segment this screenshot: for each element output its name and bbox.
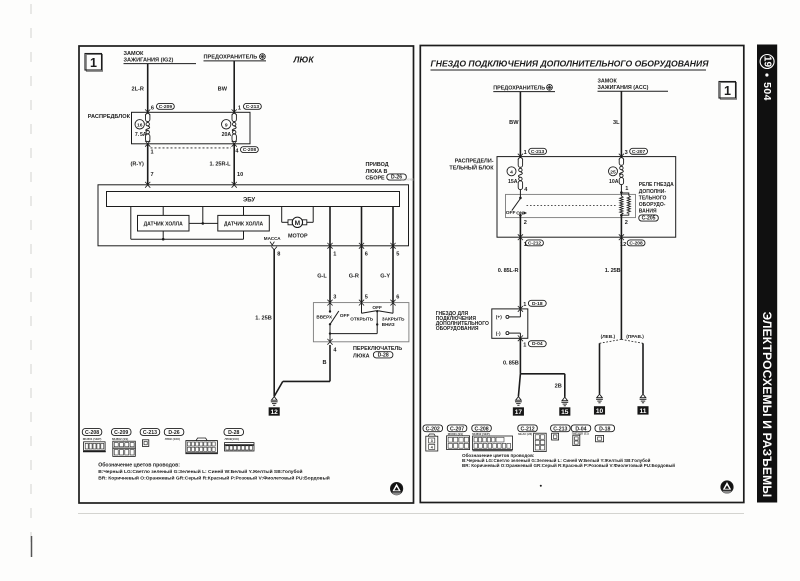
connector mark at block top right — [232, 109, 237, 112]
ground 12 — [271, 397, 277, 401]
svg-text:ЛЮК: ЛЮК — [293, 54, 315, 64]
fuse 9 20A — [232, 113, 236, 121]
sidebar page number 19-504 — [760, 55, 774, 69]
svg-text:C-213: C-213 — [246, 104, 260, 110]
svg-text:0. 85B: 0. 85B — [503, 360, 519, 366]
wire right body ground — [642, 343, 644, 394]
svg-text:D-26: D-26 — [168, 430, 179, 436]
svg-text:G-Y: G-Y — [380, 274, 390, 280]
wire 1.25B right — [620, 237, 622, 339]
ground 11 — [640, 394, 646, 398]
wire 1.25R-L to sunroof drive — [233, 144, 235, 185]
connector marks block bottom right panel — [518, 234, 523, 237]
svg-text:В:Черный LG:Светло зеленый G:З: В:Черный LG:Светло зеленый G:Зеленый L: … — [98, 468, 302, 475]
connector marks drive box bottom — [271, 247, 277, 250]
svg-text:25: 25 — [610, 169, 616, 175]
svg-text:7. 5A: 7. 5A — [135, 132, 147, 138]
diagram number 1 marker right — [719, 82, 736, 99]
svg-text:D-28: D-28 — [228, 430, 239, 436]
svg-text:B: B — [323, 360, 327, 366]
wire hall sensor link — [189, 222, 218, 224]
junction block РАСПРЕДБЛОК — [132, 112, 251, 144]
ground 15 — [562, 397, 568, 401]
svg-text:(-): (-) — [496, 331, 501, 337]
connector mark at block top left — [145, 109, 150, 112]
connector C-213 pinout — [140, 429, 160, 436]
motor M — [281, 207, 283, 223]
publisher logo right — [721, 481, 733, 493]
svg-text:ДОПОЛНИ-: ДОПОЛНИ- — [639, 189, 667, 195]
connector marks block top right panel — [518, 154, 523, 157]
svg-text:15A: 15A — [508, 179, 518, 185]
svg-text:1: 1 — [724, 84, 731, 98]
svg-text:4: 4 — [431, 445, 433, 449]
svg-text:5: 5 — [396, 252, 399, 258]
svg-text:1: 1 — [523, 343, 526, 349]
connector D-04 pinout — [571, 425, 591, 432]
svg-text:ВВЕРХ: ВВЕРХ — [316, 314, 333, 319]
svg-text:C-208: C-208 — [629, 240, 643, 246]
svg-text:10: 10 — [596, 408, 604, 415]
svg-text:МАССА: МАССА — [264, 236, 282, 241]
wire 0.85B to ground — [519, 338, 521, 374]
connector mark drive box top left — [145, 182, 150, 185]
svg-text:ВНИЗ: ВНИЗ — [382, 322, 395, 327]
svg-text:C-208: C-208 — [243, 147, 257, 153]
svg-text:1: 1 — [90, 56, 97, 70]
svg-text:BR: Коричневый O:Оранжевый GR:: BR: Коричневый O:Оранжевый GR:Серый R:Кр… — [462, 462, 675, 468]
svg-text:C-212: C-212 — [528, 240, 542, 246]
svg-text:ОБОРУДОВАНИЯ: ОБОРУДОВАНИЯ — [436, 326, 479, 332]
svg-text:D-18: D-18 — [599, 426, 610, 432]
svg-text:4: 4 — [510, 169, 513, 175]
connector mark drive box top right — [232, 182, 237, 185]
svg-text:ОТКРЫТЬ: ОТКРЫТЬ — [350, 317, 374, 322]
svg-text:ВАНИЯ: ВАНИЯ — [639, 209, 657, 215]
svg-text:D-18: D-18 — [532, 301, 543, 307]
svg-text:OFF: OFF — [506, 210, 516, 216]
svg-text:ПРЕДОХРАНИТЕЛЬ: ПРЕДОХРАНИТЕЛЬ — [204, 55, 258, 61]
svg-text:MU801 (ЧЕР): MU801 (ЧЕР) — [83, 437, 102, 441]
svg-text:C-205: C-205 — [642, 216, 656, 222]
svg-text:C-213: C-213 — [143, 430, 157, 436]
svg-text:C-207: C-207 — [632, 149, 646, 155]
wire to ground 17 — [518, 374, 520, 397]
connector D-26 pinout — [164, 429, 184, 436]
wire BW to distribution block — [519, 92, 521, 157]
wire 3L to distribution block — [620, 91, 622, 156]
svg-text:CA3A09B3: CA3A09B3 — [401, 178, 414, 182]
svg-text:BW: BW — [509, 120, 519, 126]
publisher logo left — [391, 483, 403, 495]
svg-text:7: 7 — [151, 172, 154, 178]
accessory socket box — [492, 309, 528, 338]
svg-text:(ЛЕВ.): (ЛЕВ.) — [601, 334, 616, 340]
svg-text:1. 25B: 1. 25B — [605, 268, 621, 274]
svg-text:C-209: C-209 — [159, 104, 173, 110]
svg-text:G-L: G-L — [317, 274, 327, 280]
svg-text:Обозначение цветов проводов:: Обозначение цветов проводов: — [98, 461, 180, 468]
fuse 4 15A — [518, 158, 522, 168]
fuse 16 7.5A — [146, 113, 150, 121]
svg-text:C-213: C-213 — [531, 149, 545, 155]
svg-text:ЗАМОК: ЗАМОК — [598, 78, 618, 84]
svg-text:2: 2 — [524, 220, 527, 226]
svg-text:19: 19 — [762, 56, 773, 68]
relay actuation dashed link — [527, 204, 618, 206]
wires ECU to switch inside drive box — [329, 207, 331, 246]
wire G-R — [361, 246, 363, 303]
wire G-L — [329, 246, 331, 303]
svg-text:G-R: G-R — [349, 274, 359, 280]
wire (R-Y) to sunroof drive — [147, 144, 149, 185]
page fold dashed line — [30, 4, 32, 545]
svg-text:15: 15 — [561, 409, 569, 416]
wire left body ground — [599, 343, 601, 394]
wire 2B branch — [520, 373, 564, 375]
svg-text:504: 504 — [761, 82, 773, 101]
connector C-209 pinout — [112, 429, 132, 436]
switch common bus — [329, 324, 331, 333]
svg-text:2: 2 — [625, 220, 628, 226]
wire ignition to junction block — [147, 64, 149, 113]
svg-text:M: M — [295, 220, 301, 227]
svg-text:5: 5 — [365, 294, 368, 300]
svg-text:ЛЮКА В: ЛЮКА В — [366, 169, 388, 175]
svg-text:ПРЕДОХРАНИТЕЛЬ: ПРЕДОХРАНИТЕЛЬ — [493, 85, 545, 91]
wire ground 1.25B — [273, 249, 275, 396]
switch UP contact — [329, 303, 331, 312]
connector marks switch top — [327, 300, 332, 303]
svg-text:ЛЮК (16Х): ЛЮК (16Х) — [165, 437, 180, 441]
svg-text:ДАТЧИК ХОЛЛА: ДАТЧИК ХОЛЛА — [144, 222, 184, 228]
svg-text:D-28: D-28 — [378, 352, 389, 358]
svg-text:ОБОРУДО-: ОБОРУДО- — [639, 202, 666, 208]
svg-text:C-208: C-208 — [85, 430, 99, 436]
ground 10 — [597, 394, 603, 398]
svg-text:2B: 2B — [555, 383, 562, 389]
wire ECU to hall sensor 2 — [243, 207, 245, 216]
svg-text:ГНЕЗДО (11): ГНЕЗДО (11) — [572, 431, 589, 435]
connector C-208 pinout right — [472, 425, 492, 432]
scan artefact line below panels — [78, 513, 744, 515]
svg-text:MU801 (ЗЗ): MU801 (ЗЗ) — [448, 432, 463, 436]
sunroof drive assembly box — [98, 185, 409, 246]
right panel frame — [420, 46, 744, 503]
svg-text:1: 1 — [333, 252, 336, 258]
svg-text:6: 6 — [151, 105, 154, 111]
svg-text:(ПРАВ.): (ПРАВ.) — [626, 334, 644, 340]
connector C-207 pinout — [447, 425, 467, 432]
svg-text:1: 1 — [151, 150, 154, 156]
svg-text:1: 1 — [524, 150, 527, 156]
connector D-28 pinout — [224, 429, 244, 436]
svg-text:МОТОР: МОТОР — [288, 233, 308, 239]
svg-text:17: 17 — [515, 409, 523, 416]
hall sensor box 1 — [138, 215, 190, 231]
connector mark at block bottom right — [232, 141, 237, 144]
left panel frame — [79, 46, 414, 503]
connector mark at block bottom left — [145, 141, 150, 144]
svg-text:C-209: C-209 — [114, 430, 128, 436]
svg-text:2L-R: 2L-R — [132, 86, 144, 92]
svg-text:ПРИВОД: ПРИВОД — [366, 162, 389, 168]
connector C-202 pinout — [423, 425, 443, 432]
relay to block bottom wires — [519, 215, 521, 237]
svg-text:3L: 3L — [613, 120, 620, 126]
svg-text:11: 11 — [640, 408, 647, 415]
svg-text:12: 12 — [271, 409, 279, 416]
distribution block right — [497, 157, 676, 238]
connector C-208 pinout — [82, 429, 102, 436]
connector mark switch bottom — [327, 339, 332, 342]
relay coil — [620, 185, 622, 196]
svg-text:РЕЛЕ ГНЕЗДА: РЕЛЕ ГНЕЗДА — [639, 182, 674, 188]
svg-text:ЭБУ: ЭБУ — [243, 198, 255, 204]
sunroof switch box — [313, 303, 409, 342]
connector mark socket bottom — [518, 335, 523, 338]
svg-text:6: 6 — [365, 252, 368, 258]
svg-text:ЛЮКА: ЛЮКА — [353, 353, 370, 359]
svg-text:ЛЮК(10Х): ЛЮК(10Х) — [225, 437, 239, 441]
svg-text:ТЕЛЬНОГО: ТЕЛЬНОГО — [639, 195, 667, 201]
relay switch contact — [519, 190, 521, 198]
relay box — [506, 194, 636, 217]
svg-text:ДАТЧИК ХОЛЛА: ДАТЧИК ХОЛЛА — [224, 222, 264, 228]
svg-text:C-213: C-213 — [553, 426, 567, 432]
svg-text:D-04: D-04 — [532, 341, 543, 347]
wire 0.85L-R — [519, 237, 521, 309]
wire fuse feed to junction block — [233, 61, 235, 112]
wire G-Y — [392, 246, 394, 303]
svg-text:1: 1 — [523, 302, 526, 308]
svg-text:ЗАЖИГАНИЯ (АСС): ЗАЖИГАНИЯ (АСС) — [598, 85, 649, 91]
svg-text:ЭЛЕКТРОСХЕМЫ И РАЗЪЕМЫ: ЭЛЕКТРОСХЕМЫ И РАЗЪЕМЫ — [760, 312, 774, 498]
connector C-208 dashed boundary — [151, 147, 232, 149]
svg-text:1: 1 — [625, 186, 628, 192]
svg-text:8: 8 — [277, 252, 280, 258]
ECU box ЭБУ — [107, 192, 400, 207]
connector C-212 pinout — [518, 425, 538, 432]
diagram number 1 marker — [85, 54, 102, 71]
svg-text:1. 25R-L: 1. 25R-L — [210, 162, 232, 168]
fuse 25 10A — [619, 158, 623, 166]
svg-text:6: 6 — [396, 294, 399, 300]
svg-text:9: 9 — [225, 122, 228, 128]
svg-text:(+): (+) — [496, 315, 502, 321]
svg-text:16: 16 — [137, 122, 143, 128]
svg-text:BR: Коричневый O:Оранжевый GR:: BR: Коричневый O:Оранжевый GR:Серый R:Кр… — [98, 474, 330, 481]
wire ECU to hall sensor 1 — [162, 207, 164, 216]
svg-text:1: 1 — [238, 105, 241, 111]
svg-text:1. 25B: 1. 25B — [255, 316, 271, 322]
svg-text:MU802 (ЧЕР): MU802 (ЧЕР) — [472, 432, 489, 436]
svg-text:3: 3 — [625, 150, 628, 156]
svg-text:(R-Y): (R-Y) — [131, 162, 144, 168]
svg-text:РАСПРЕДБЛОК: РАСПРЕДБЛОК — [88, 114, 131, 120]
svg-text:MLAC (23): MLAC (23) — [518, 432, 532, 436]
svg-text:ЗАЖИГАНИЯ (IG2): ЗАЖИГАНИЯ (IG2) — [124, 57, 174, 63]
svg-text:3: 3 — [431, 439, 433, 443]
svg-text:РАСПРЕДЕЛИ-: РАСПРЕДЕЛИ- — [455, 159, 494, 165]
svg-text:ТЕЛЬНЫЙ БЛОК: ТЕЛЬНЫЙ БЛОК — [449, 163, 494, 171]
svg-text:BW: BW — [218, 86, 228, 92]
svg-text:C-202: C-202 — [426, 426, 440, 432]
svg-text:OFF: OFF — [340, 313, 350, 319]
svg-text:3: 3 — [333, 294, 336, 300]
svg-text:10: 10 — [237, 172, 243, 178]
svg-text:ГНЕЗДО ПОДКЛЮЧЕНИЯ ДОПОЛНИТЕЛЬ: ГНЕЗДО ПОДКЛЮЧЕНИЯ ДОПОЛНИТЕЛЬНОГО ОБОРУ… — [431, 59, 710, 69]
hall sensor box 2 — [218, 215, 269, 231]
svg-text:10A: 10A — [609, 179, 619, 185]
ground 17 — [516, 397, 522, 401]
wire ECU common ground bus — [130, 207, 132, 240]
black sidebar — [757, 45, 777, 503]
svg-text:ЗАКРЫТЬ: ЗАКРЫТЬ — [382, 317, 405, 322]
svg-text:СБОРЕ: СБОРЕ — [366, 176, 386, 182]
svg-text:MU802 (ЗЗ): MU802 (ЗЗ) — [112, 437, 128, 441]
stray mark — [540, 485, 542, 487]
connector D-18 pinout — [595, 425, 615, 432]
svg-text:0. 85L-R: 0. 85L-R — [498, 268, 519, 274]
svg-text:ЗАМОК: ЗАМОК — [124, 51, 145, 57]
connector C-213 pinout right — [551, 425, 571, 432]
wire B from switch to ground — [329, 345, 331, 381]
svg-text:20A: 20A — [222, 132, 232, 138]
